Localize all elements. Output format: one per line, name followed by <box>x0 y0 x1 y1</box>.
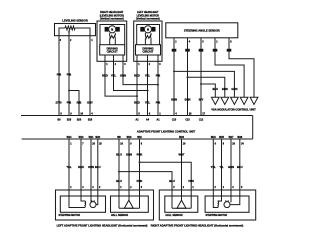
right hall sensor triangle <box>177 200 186 208</box>
svg-text:P/B: P/B <box>67 72 72 76</box>
wire branch pin2 to second terminal <box>69 91 79 116</box>
svg-text:M: M <box>147 29 149 31</box>
svg-text:BRN: BRN <box>222 87 228 91</box>
svg-text:GRY: GRY <box>87 100 93 104</box>
bottom rail terminal labels <box>67 136 243 139</box>
svg-text:YEL: YEL <box>145 100 151 104</box>
wire left motor pin1 to control unit <box>136 61 138 115</box>
svg-text:CIRCUIT: CIRCUIT <box>107 50 118 54</box>
wire control unit to left hall pin2 <box>128 139 130 200</box>
svg-text:W22: W22 <box>95 137 100 139</box>
steering angle sensor box <box>166 23 238 38</box>
svg-text:B25: B25 <box>67 120 72 122</box>
right stepping motor coil <box>218 201 219 208</box>
steering sensor connector blob 4 <box>213 49 218 52</box>
wire branch steering pin3 to VSA triangle 1 <box>201 84 215 97</box>
wire control unit to right stepping motor pin2 <box>218 139 222 201</box>
right headlight leveling motor box <box>97 21 127 61</box>
wire control unit to left stepping motor pin4 <box>96 139 98 205</box>
svg-text:W26: W26 <box>179 137 184 139</box>
left stepping motor coil <box>85 201 86 208</box>
svg-text:PNK: PNK <box>137 179 143 183</box>
left stepping motor rotor circle <box>90 202 96 208</box>
svg-text:C12: C12 <box>199 120 204 122</box>
svg-text:BLU: BLU <box>213 87 219 91</box>
svg-text:RED: RED <box>134 73 140 77</box>
svg-text:W28: W28 <box>237 137 242 139</box>
left hall sensor baseline <box>119 207 140 209</box>
wire steering pin8 to VSA triangle 5 <box>229 38 254 98</box>
right hall sensor baseline <box>172 207 191 209</box>
left stepping motor brush ticks <box>92 200 94 202</box>
svg-text:R/B: R/B <box>77 100 82 104</box>
left motor brush right <box>152 27 156 32</box>
adaptive front lighting control unit bottom rail <box>22 138 253 140</box>
svg-text:W11: W11 <box>137 137 142 139</box>
leveling sensor wiper arrow <box>68 32 70 36</box>
right motor feedback resistor <box>110 33 116 45</box>
adaptive front lighting control unit right edge <box>252 116 254 140</box>
left motor brush left <box>140 27 144 32</box>
leveling sensor potentiometer track <box>59 28 90 36</box>
svg-text:GRN: GRN <box>228 165 234 169</box>
wire control unit to right hall pin2 <box>181 139 183 200</box>
svg-text:BLU: BLU <box>237 165 243 169</box>
svg-text:HALL SENSOR: HALL SENSOR <box>111 214 128 217</box>
svg-text:B18: B18 <box>88 120 93 122</box>
left motor driving circuit box <box>136 45 161 55</box>
svg-text:LEVELING SENSOR: LEVELING SENSOR <box>62 18 88 22</box>
steering sensor connector blob 3 <box>199 49 204 52</box>
left hall sensor triangle <box>124 200 133 208</box>
svg-text:PNK: PNK <box>137 153 143 157</box>
svg-text:W21: W21 <box>89 137 94 139</box>
wire steering pin2 to control unit <box>173 38 175 116</box>
wire control unit to right stepping motor pin4 <box>230 139 240 205</box>
svg-text:2753: 2753 <box>56 100 62 104</box>
left headlight leveling motor box <box>134 21 162 61</box>
right stepping motor rotor circle <box>224 202 230 208</box>
left motor feedback resistor <box>145 33 151 45</box>
left motor M circle <box>144 26 151 33</box>
svg-text:W27: W27 <box>229 137 234 139</box>
wire right motor pin3 crossover <box>123 61 158 84</box>
leveling sensor box <box>55 24 96 36</box>
svg-text:P/B: P/B <box>156 73 161 77</box>
wire sensor pin2 to control unit <box>68 36 70 116</box>
svg-text:RIGHT ADAPTIVE FRONT LIGHTING: RIGHT ADAPTIVE FRONT LIGHTING HEADLIGHT … <box>151 223 244 227</box>
svg-text:YEL: YEL <box>145 73 151 77</box>
wire branch steering pin4 to VSA triangle 2 <box>188 77 225 97</box>
top rail pin numbers <box>60 112 205 115</box>
svg-text:P/B: P/B <box>67 100 72 104</box>
svg-text:P/B: P/B <box>156 100 161 104</box>
svg-text:B20: B20 <box>77 120 82 122</box>
svg-text:STEPPING MOTOR: STEPPING MOTOR <box>59 214 81 217</box>
wire control unit to right stepping motor pin3 <box>230 139 232 202</box>
svg-text:GRN: GRN <box>126 153 132 157</box>
right motor brush right <box>116 27 120 32</box>
svg-text:BLU: BLU <box>116 153 122 157</box>
left hall sensor inner box <box>111 196 149 212</box>
right headlight leveling motor label <box>100 11 124 20</box>
svg-text:LEFT ADAPTIVE FRONT LIGHTING H: LEFT ADAPTIVE FRONT LIGHTING HEADLIGHT (… <box>57 223 148 227</box>
wire right motor pin1 crossover <box>105 61 137 96</box>
wire left motor pin3 to control unit <box>157 61 159 115</box>
svg-text:RED: RED <box>78 165 84 169</box>
svg-text:GRN: GRN <box>120 73 126 77</box>
VSA triangle 2 <box>221 97 229 104</box>
bottom rail pin numbers <box>70 143 244 146</box>
wire control unit to left hall pin3 and branch to right hall pin3 <box>139 139 141 208</box>
svg-text:W13: W13 <box>79 137 84 139</box>
svg-text:C13: C13 <box>172 120 177 122</box>
svg-text:P/B: P/B <box>57 72 62 76</box>
svg-text:B/Y: B/Y <box>199 97 204 101</box>
right motor M circle <box>109 26 116 33</box>
svg-text:W25: W25 <box>219 137 224 139</box>
right motor brush left <box>105 27 109 32</box>
svg-text:W14: W14 <box>67 136 72 139</box>
wire control unit to left stepping motor pin1 <box>69 139 85 208</box>
right motor internal top wire <box>100 25 125 45</box>
svg-text:STEPPING MOTOR: STEPPING MOTOR <box>206 214 228 217</box>
right hall sensor inner box <box>165 196 198 212</box>
wire steering pin1 to VSA triangle 4 <box>215 38 244 98</box>
left stepping motor inner box <box>60 196 105 212</box>
svg-text:BLU: BLU <box>116 179 122 183</box>
svg-text:GRN: GRN <box>171 97 177 101</box>
right motor pin stubs <box>105 55 123 61</box>
svg-text:C15: C15 <box>185 120 190 122</box>
top rail terminal labels <box>58 119 204 122</box>
wire control unit to left stepping motor pin2 <box>81 139 85 201</box>
box entry pin numbers <box>70 186 243 189</box>
VSA triangle 5 <box>250 97 258 104</box>
wire sensor pin3 to control unit <box>58 36 60 116</box>
left motor internal top wire <box>137 25 160 45</box>
svg-text:HALL SENSOR: HALL SENSOR <box>166 214 183 217</box>
right motor driving circuit box <box>100 45 125 55</box>
VSA triangle 4 <box>240 97 248 104</box>
svg-text:ADAPTIVE FRONT LIGHTING CONTRO: ADAPTIVE FRONT LIGHTING CONTROL UNIT <box>137 129 196 133</box>
svg-text:RED: RED <box>102 73 108 77</box>
svg-text:ORN: ORN <box>88 165 94 169</box>
svg-text:PNK: PNK <box>188 179 194 183</box>
VSA triangle 3 <box>231 97 239 104</box>
svg-text:CIRCUIT: CIRCUIT <box>143 50 154 54</box>
svg-text:GRN: GRN <box>231 87 237 91</box>
left headlight leveling motor label <box>136 11 160 20</box>
wire steering pin4 to control unit <box>187 38 189 116</box>
svg-text:STEERING ANGLE SENSOR: STEERING ANGLE SENSOR <box>184 29 220 33</box>
svg-text:M: M <box>111 29 113 31</box>
svg-text:GRN: GRN <box>185 97 191 101</box>
wire control unit to right stepping motor pin1 <box>213 139 217 208</box>
right stepping motor inner box <box>205 196 249 212</box>
adaptive front lighting control unit top rail <box>21 115 253 117</box>
wire control unit to left hall pin1 and branch to right hall pin1 <box>118 139 120 208</box>
svg-text:(Vertical movement): (Vertical movement) <box>136 18 160 21</box>
wire left motor pin2 to control unit <box>147 61 149 115</box>
svg-text:(Vertical movement): (Vertical movement) <box>100 18 124 21</box>
steering sensor connector blob 1 <box>172 49 177 52</box>
left headlight outer box <box>56 190 154 220</box>
svg-text:VSA MODULATOR-CONTROL UNIT: VSA MODULATOR-CONTROL UNIT <box>211 107 256 111</box>
wire branch steering pin2 to VSA triangle 3 <box>174 71 234 97</box>
wire control unit to left stepping motor pin3 <box>90 139 92 202</box>
right stepping motor brush ticks <box>226 200 228 202</box>
steering sensor connector blob 5 <box>227 49 232 52</box>
leveling sensor resistor zigzag <box>65 26 75 30</box>
svg-text:BLU: BLU <box>169 179 175 183</box>
wire right motor pin2 crossover <box>114 61 148 90</box>
wire sensor pin1 to control unit <box>89 36 91 116</box>
left motor pin stubs <box>137 55 158 61</box>
svg-text:YEL: YEL <box>211 165 217 169</box>
right headlight outer box <box>159 190 255 220</box>
wire steering pin3 to control unit <box>200 38 202 116</box>
svg-text:YEL: YEL <box>66 165 72 169</box>
svg-text:W10: W10 <box>127 137 132 139</box>
svg-text:RED: RED <box>134 100 140 104</box>
svg-text:WHT: WHT <box>178 153 184 157</box>
svg-text:W24: W24 <box>211 136 216 139</box>
steering sensor connector blob 2 <box>185 49 190 52</box>
VSA triangle 1 <box>211 97 219 104</box>
svg-text:Y/L: Y/L <box>219 165 224 169</box>
svg-text:YEL: YEL <box>111 73 117 77</box>
svg-text:BLU: BLU <box>95 165 101 169</box>
